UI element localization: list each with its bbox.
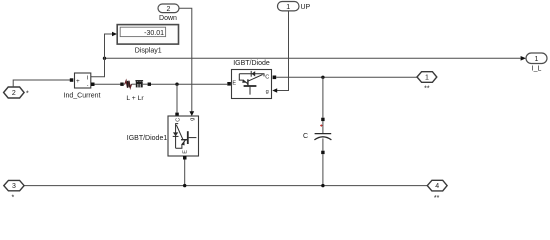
wire: coil to right terminal xyxy=(143,83,148,85)
capacitor C plates xyxy=(315,133,332,135)
svg-text:Down: Down xyxy=(159,15,177,22)
wire: junction down to C terminal of IGBT/Diode1 xyxy=(176,84,178,112)
display Display1 xyxy=(117,25,178,44)
pin: E terminal square of IGBT/Diode1 (bottom) xyxy=(183,156,187,160)
pin: gate arrow into IGBT/Diode1 (points down) xyxy=(189,111,194,116)
svg-text:I_L: I_L xyxy=(532,66,542,73)
svg-text:1: 1 xyxy=(425,75,429,82)
pin: arrow into Display1 input xyxy=(112,32,117,37)
node: junction feeding capacitor C xyxy=(321,76,324,79)
svg-text:C: C xyxy=(265,75,269,81)
svg-text:C: C xyxy=(303,133,308,140)
pin: top terminal square of C xyxy=(321,118,324,121)
wire: bottom bus from port 3 to port 4 xyxy=(24,185,428,187)
wire: Down to gate of IGBT/Diode1 xyxy=(179,8,192,111)
node: junction of capacitor with bottom bus xyxy=(321,184,324,187)
pin: left terminal square xyxy=(120,83,123,86)
svg-text:C: C xyxy=(176,118,182,122)
svg-text:i: i xyxy=(87,74,88,81)
node: junction of i-signal with top bus xyxy=(103,57,106,60)
svg-text:**: ** xyxy=(434,195,440,200)
pin: gate arrow into IGBT/Diode (points left) xyxy=(272,88,277,92)
outport 1 "I_L" xyxy=(521,53,547,64)
pin: bottom terminal square of C xyxy=(321,151,324,154)
wire: C of IGBT/Diode to port 1 (**) xyxy=(276,76,417,78)
pin: + terminal square of Ind_Current xyxy=(70,78,74,82)
svg-text:UP: UP xyxy=(301,4,311,11)
label: red polarity mark xyxy=(320,124,322,126)
transistor IGBT/Diode1 (rotated 90 deg CCW) xyxy=(168,116,199,156)
svg-text:**: ** xyxy=(424,86,430,93)
svg-text:-30.01: -30.01 xyxy=(144,30,164,37)
wire: into plates xyxy=(322,121,324,134)
pin: E terminal square of IGBT/Diode xyxy=(227,82,231,86)
wire: UP to gate of IGBT/Diode xyxy=(277,11,289,91)
pin: C terminal square of IGBT/Diode1 (top left) xyxy=(175,113,179,117)
wire: E of IGBT/Diode1 down to bottom bus xyxy=(184,160,186,186)
block Ind_Current (current measurement) xyxy=(75,73,91,89)
svg-text:2: 2 xyxy=(12,90,16,97)
svg-text:1: 1 xyxy=(535,56,539,63)
svg-text:E: E xyxy=(183,150,189,154)
svg-text:g: g xyxy=(266,89,269,95)
pin: C terminal square of IGBT/Diode xyxy=(273,76,277,80)
wire: junction down to capacitor xyxy=(322,77,324,117)
pin: - terminal square of Ind_Current xyxy=(91,83,95,87)
svg-text:+: + xyxy=(76,78,80,85)
wire: capacitor down to bottom bus xyxy=(322,154,324,186)
svg-text:4: 4 xyxy=(435,183,439,190)
port 4 (electrical connection hexagon, bottom right) xyxy=(427,180,447,191)
wire: stub to resistor xyxy=(124,83,125,85)
outport 2 "Down" xyxy=(158,4,179,13)
wire: Ind_Current to inductor L+Lr xyxy=(95,83,121,85)
port 1 (electrical connection hexagon, middle right) xyxy=(417,72,437,83)
port 3 (electrical connection hexagon, bottom left) xyxy=(4,180,24,190)
wire: inductor to E terminal of IGBT/Diode xyxy=(151,83,227,85)
svg-text:1: 1 xyxy=(286,4,290,11)
pin: right terminal square xyxy=(148,83,151,86)
coil body xyxy=(136,82,143,87)
transistor IGBT/Diode xyxy=(232,70,272,99)
wire: top measurement bus from junction to outport I_L xyxy=(105,57,521,59)
wire: plates to bottom terminal xyxy=(322,138,324,150)
capacitor C branch xyxy=(314,77,331,185)
inductor L+Lr (series RL branch) xyxy=(120,81,151,88)
svg-text:2: 2 xyxy=(167,6,171,13)
node: junction of IGBT/Diode1 emitter with bottom bus xyxy=(183,184,186,187)
wire: i output of Ind_Current up to Display1 xyxy=(91,34,112,77)
port 2 (electrical connection hexagon, left) xyxy=(4,87,25,98)
svg-text:L + Lr: L + Lr xyxy=(126,95,144,102)
svg-text:IGBT/Diode1: IGBT/Diode1 xyxy=(127,135,168,142)
outport 1 "UP" xyxy=(278,2,300,11)
svg-text:Ind_Current: Ind_Current xyxy=(64,92,101,99)
svg-text:IGBT/Diode: IGBT/Diode xyxy=(233,60,270,67)
svg-text:E: E xyxy=(232,80,236,86)
svg-text:*: * xyxy=(12,195,15,201)
svg-text:3: 3 xyxy=(12,183,16,190)
resistor zigzag (dark red) xyxy=(125,81,132,88)
svg-text:g: g xyxy=(190,118,196,121)
svg-text:*: * xyxy=(26,91,29,98)
node: junction feeding IGBT/Diode1 collector xyxy=(175,83,178,86)
wire: port 2 to Ind_Current + terminal xyxy=(13,80,70,87)
svg-text:Display1: Display1 xyxy=(135,48,162,55)
wire: resistor to coil xyxy=(132,83,136,85)
